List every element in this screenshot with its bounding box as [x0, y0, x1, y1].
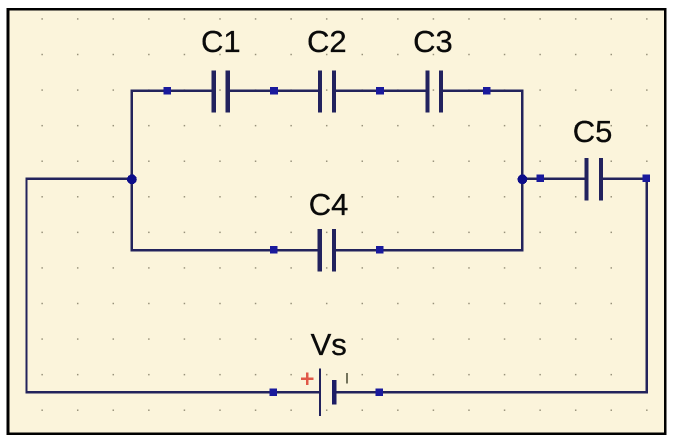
- pin Vs negative: [375, 388, 383, 396]
- wire: left vertical branch (node A): [131, 89, 133, 251]
- wire: top rail, node A corner to C1 left plate: [131, 89, 214, 91]
- node A junction dot: [127, 174, 137, 184]
- pin C3 right: [483, 87, 491, 95]
- pin C4 right: [376, 246, 384, 254]
- wire: left rail vertical: [25, 178, 27, 394]
- wire: top rail, C3 to node B corner: [441, 89, 523, 91]
- voltage source Vs (battery): [319, 369, 337, 416]
- svg-text:C5: C5: [573, 114, 613, 149]
- capacitor C5: [584, 158, 603, 200]
- wire: C5 right plate to right rail: [599, 178, 648, 180]
- wire: node B to C5 left plate: [521, 178, 586, 180]
- capacitor C4: [318, 229, 337, 271]
- capacitor C2: [318, 70, 336, 112]
- pin C5 right: [643, 174, 651, 182]
- wire: right vertical branch (node B): [521, 89, 523, 251]
- svg-text:Vs: Vs: [311, 327, 347, 362]
- pin C5 left: [536, 174, 544, 182]
- svg-text:C4: C4: [309, 187, 349, 222]
- wire: middle rail, C4 right plate to node B: [332, 249, 523, 251]
- pin C1/C2 shared: [270, 87, 278, 95]
- svg-text:C2: C2: [307, 24, 347, 59]
- battery plus sign: [301, 373, 313, 385]
- capacitor C3: [425, 70, 443, 112]
- wire: top rail, C1 to C2: [228, 89, 320, 91]
- pin Vs positive: [270, 388, 278, 396]
- pin C4 left: [270, 246, 278, 254]
- wire: bottom rail, battery negative plate to right rail: [334, 391, 648, 393]
- wire: node A stub to left rail: [25, 178, 131, 180]
- wire: top rail, C2 to C3: [334, 89, 427, 91]
- pin C1 left: [164, 87, 172, 95]
- svg-text:C3: C3: [413, 24, 453, 59]
- wire: bottom rail, left rail to battery positive plate: [25, 391, 320, 393]
- node B junction dot: [518, 174, 528, 184]
- wire: middle rail, node A to C4 left plate: [131, 249, 320, 251]
- capacitor C1: [212, 70, 230, 112]
- pin C2/C3 shared: [376, 87, 384, 95]
- svg-text:C1: C1: [201, 24, 241, 59]
- wire: right rail vertical: [646, 178, 648, 394]
- battery minus mark: [346, 373, 348, 384]
